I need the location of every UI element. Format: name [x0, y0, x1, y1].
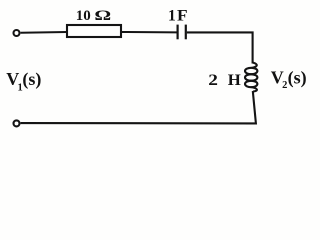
svg-text:F: F — [177, 6, 188, 24]
inductor L coil — [245, 63, 257, 92]
svg-text:H: H — [228, 72, 241, 88]
svg-text:Ω: Ω — [94, 7, 111, 23]
wire: capacitor to top-right corner, down to inductor — [187, 32, 253, 63]
svg-text:(s): (s) — [22, 69, 41, 90]
svg-text:(s): (s) — [288, 67, 307, 88]
svg-text:10: 10 — [76, 8, 91, 24]
terminal T1 (top-left input) — [14, 30, 20, 36]
svg-text:1: 1 — [168, 7, 176, 24]
svg-text:2: 2 — [282, 80, 287, 91]
wire top-left: terminal to resistor — [21, 31, 67, 34]
capacitor C right plate — [185, 25, 187, 40]
resistor R (box) — [67, 25, 121, 37]
terminal T2 (bottom-left) — [14, 120, 20, 126]
capacitor C left plate — [177, 25, 179, 40]
wire: resistor to capacitor — [122, 31, 177, 33]
wire: inductor down, bottom-right corner, to bottom terminal — [21, 91, 256, 123]
svg-text:2: 2 — [208, 71, 218, 89]
